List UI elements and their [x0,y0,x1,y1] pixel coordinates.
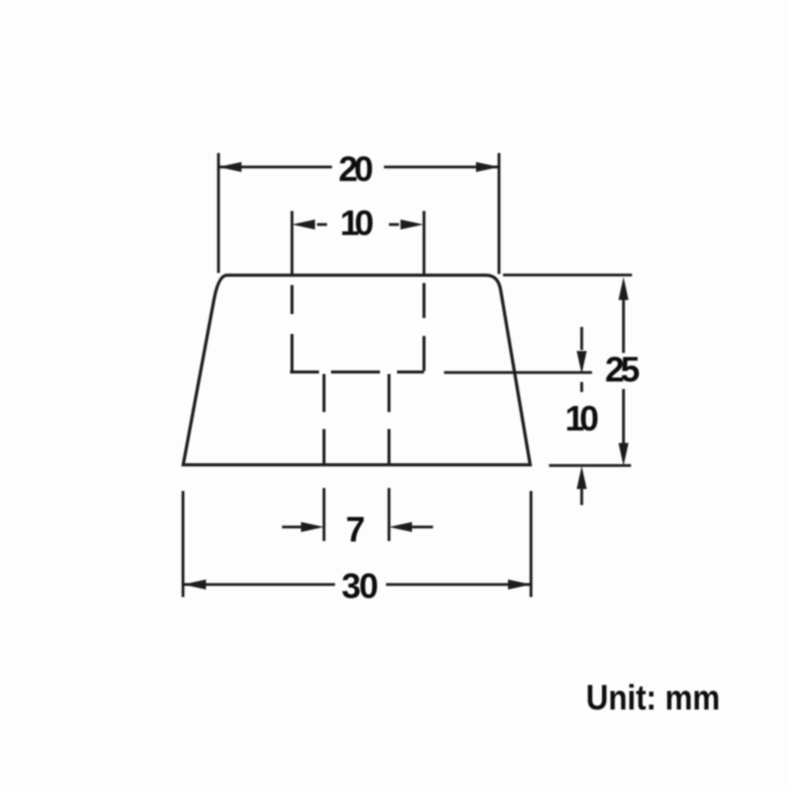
svg-text:25: 25 [605,351,640,390]
svg-text:7: 7 [346,511,365,550]
svg-text:10: 10 [340,204,374,243]
svg-text:10: 10 [565,400,599,439]
svg-text:Unit: mm: Unit: mm [586,679,720,718]
svg-text:20: 20 [339,150,374,189]
svg-text:30: 30 [342,567,379,606]
